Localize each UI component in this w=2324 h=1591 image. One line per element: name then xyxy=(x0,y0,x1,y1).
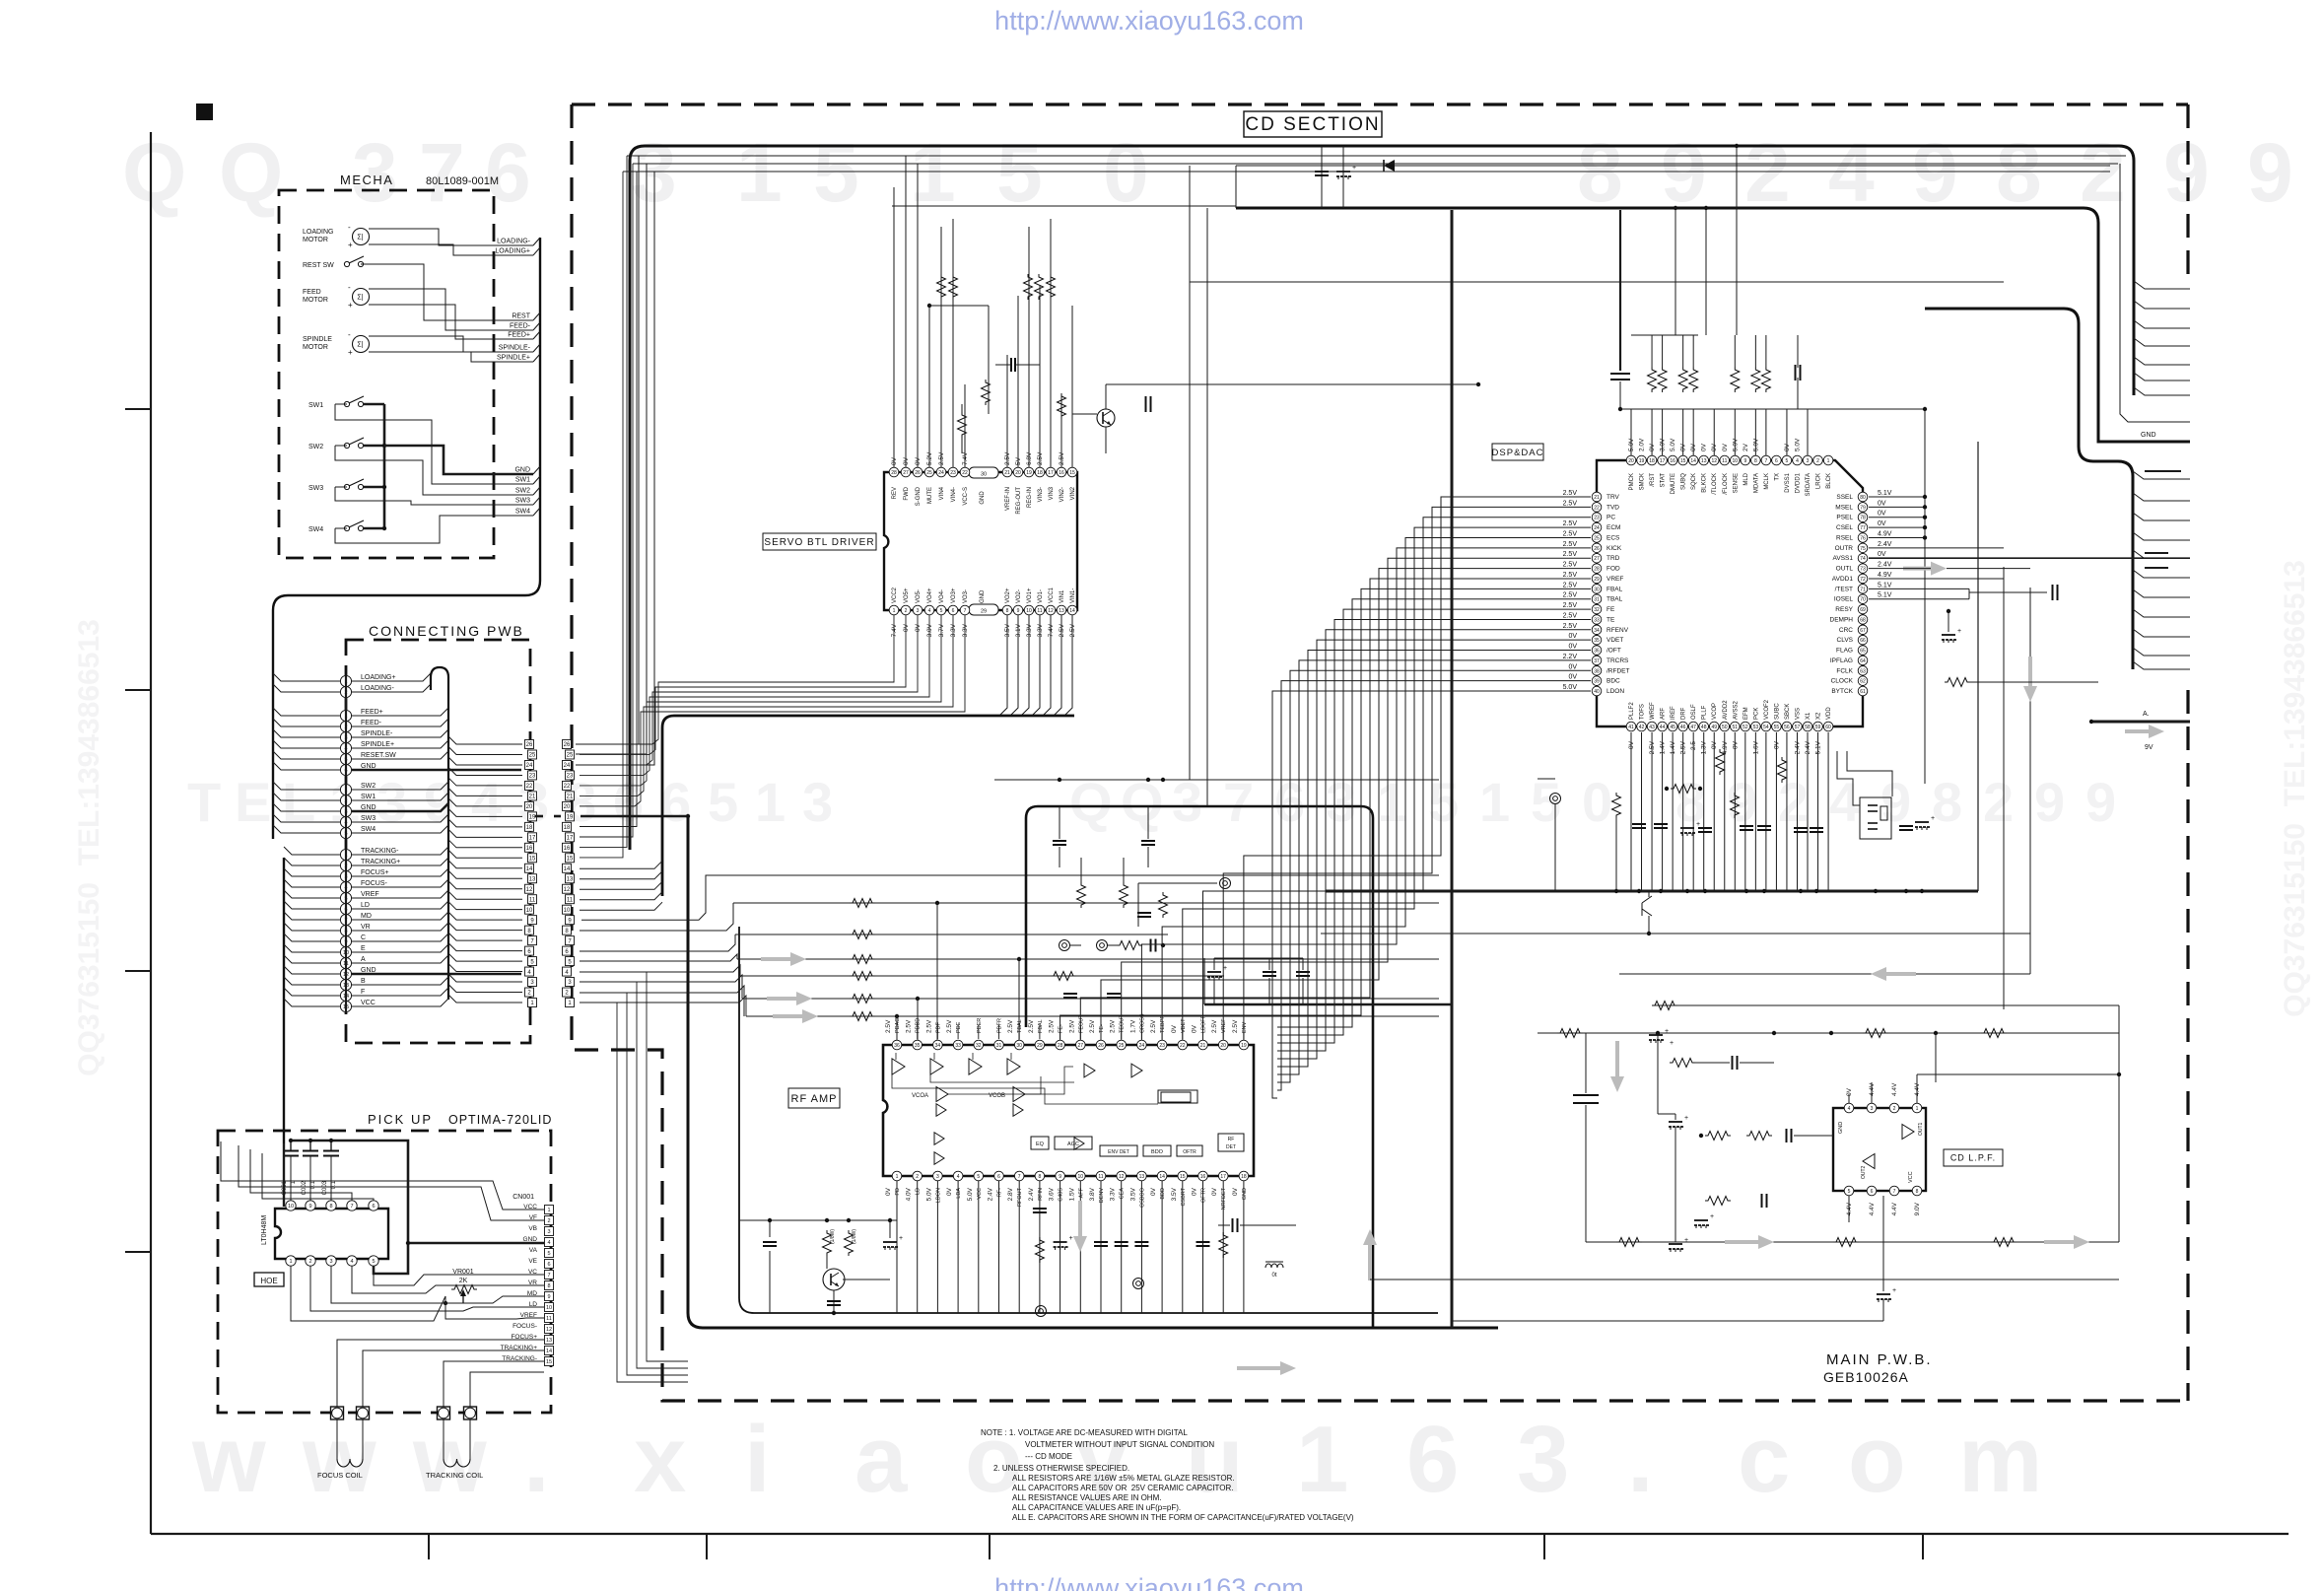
op-amp xyxy=(969,1059,982,1074)
trunk GND right xyxy=(1236,208,2190,442)
resistor xyxy=(1991,1238,2016,1247)
svg-text:10: 10 xyxy=(1078,1174,1084,1180)
CN001 pin 14 xyxy=(545,1347,554,1355)
svg-text:VCOF2: VCOF2 xyxy=(1764,699,1770,720)
dsp pin 77 xyxy=(1858,522,1868,532)
trunk vertical center-right xyxy=(1451,210,1454,1328)
svg-text:-: - xyxy=(348,223,351,232)
coil terminals xyxy=(331,1407,344,1419)
dsp pin 25 xyxy=(1592,533,1602,543)
svg-text:66: 66 xyxy=(1860,638,1866,644)
electrolytic capacitor xyxy=(1942,634,1955,636)
long wire y791 xyxy=(994,779,1439,781)
resistor xyxy=(1612,793,1621,818)
capacitor xyxy=(1794,827,1808,829)
svg-text:0V: 0V xyxy=(946,1187,953,1196)
dsp pin 43 xyxy=(1647,722,1657,731)
svg-text:SPINDLE+: SPINDLE+ xyxy=(361,741,394,748)
svg-text:GND: GND xyxy=(514,467,530,474)
svg-text:31: 31 xyxy=(996,1043,1002,1049)
svg-text:25: 25 xyxy=(1119,1043,1125,1049)
resistor xyxy=(850,955,875,964)
svg-text:25: 25 xyxy=(926,470,932,476)
transistor Q servo xyxy=(1097,409,1115,427)
trunk C stubs xyxy=(2133,471,2190,479)
svg-text:RSEL: RSEL xyxy=(1836,534,1853,541)
svg-text:21: 21 xyxy=(567,795,574,800)
svg-text:0.1: 0.1 xyxy=(310,1180,316,1189)
svg-text:60: 60 xyxy=(1825,725,1831,730)
svg-text:12: 12 xyxy=(526,887,533,893)
CN001 pin 12 xyxy=(545,1325,554,1334)
dsp right bus xyxy=(1924,409,1926,784)
dsp pin 79 xyxy=(1858,503,1868,513)
svg-text:2.4V: 2.4V xyxy=(988,1187,994,1201)
CN001 pin 5 xyxy=(545,1249,554,1258)
rf pin 15 xyxy=(1178,1171,1188,1181)
dsp pin 32 xyxy=(1592,604,1602,614)
svg-text:12: 12 xyxy=(1119,1174,1125,1180)
svg-text:2.5V: 2.5V xyxy=(1563,582,1578,588)
svg-text:21: 21 xyxy=(1200,1043,1206,1049)
wires cn001 focus tracking to coils xyxy=(337,1340,544,1407)
svg-text:20: 20 xyxy=(1628,458,1634,464)
svg-text:REG-OUT: REG-OUT xyxy=(1016,487,1022,515)
svg-text:48: 48 xyxy=(1701,725,1707,730)
resistor xyxy=(1716,749,1725,775)
PICK UP dashed box xyxy=(218,1131,551,1413)
dsp pin 56 xyxy=(1782,722,1792,731)
svg-text:F: F xyxy=(361,989,365,996)
svg-text:49: 49 xyxy=(1711,725,1717,730)
svg-text:TRACKING-: TRACKING- xyxy=(361,848,399,855)
op-amp xyxy=(1013,1104,1023,1117)
svg-text:STAT: STAT xyxy=(1661,473,1667,488)
rf pin 7 xyxy=(1014,1171,1024,1181)
svg-text:13: 13 xyxy=(1139,1174,1145,1180)
svg-text:10: 10 xyxy=(546,1305,552,1311)
svg-text:TOFS: TOFS xyxy=(1640,704,1646,720)
svg-text:+: + xyxy=(348,241,353,249)
svg-text:46: 46 xyxy=(1680,725,1686,730)
svg-text:TRV: TRV xyxy=(1606,494,1620,501)
op-amp xyxy=(1013,1087,1025,1102)
CN001 pin 6 xyxy=(545,1260,554,1269)
resistor xyxy=(850,972,875,981)
svg-text:2.5V: 2.5V xyxy=(1563,490,1578,497)
resistor xyxy=(850,899,875,908)
svg-text:79: 79 xyxy=(1860,505,1866,511)
svg-text:MDATA: MDATA xyxy=(1753,473,1759,493)
capacitor xyxy=(1134,1241,1148,1243)
lpf pin 8 xyxy=(1912,1186,1922,1196)
rf pin 17 xyxy=(1218,1171,1228,1181)
svg-text:21: 21 xyxy=(1594,495,1600,501)
svg-text:o: o xyxy=(1848,1407,1906,1512)
dsp pin 1 xyxy=(1823,455,1833,465)
dsp pin 35 xyxy=(1592,635,1602,645)
svg-text:PDE: PDE xyxy=(956,1021,962,1033)
svg-text:34: 34 xyxy=(935,1043,941,1049)
svg-text:A: A xyxy=(361,956,366,963)
rf pin 8 xyxy=(1035,1171,1045,1181)
resistor xyxy=(1671,785,1696,794)
svg-text:SSEL: SSEL xyxy=(1836,494,1853,501)
dsp pin 5 xyxy=(1782,455,1792,465)
svg-text:+: + xyxy=(1069,1235,1073,1242)
svg-text:2.5V: 2.5V xyxy=(1007,1019,1014,1033)
svg-text:VCOA: VCOA xyxy=(912,1093,928,1099)
dsp pin 21 xyxy=(1592,492,1602,502)
long thin wire y286 xyxy=(1190,281,2004,283)
svg-text:8: 8 xyxy=(1675,771,1706,833)
svg-text:2.5V: 2.5V xyxy=(1068,1019,1075,1033)
svg-text:X2: X2 xyxy=(1816,712,1822,720)
svg-text:1: 1 xyxy=(289,1259,292,1265)
svg-text:SRDATA: SRDATA xyxy=(1806,473,1811,496)
svg-text:0: 0 xyxy=(1103,126,1149,219)
svg-text:LOADING+: LOADING+ xyxy=(495,248,530,255)
svg-text:VB: VB xyxy=(528,1225,537,1232)
capacitor xyxy=(1232,1218,1234,1232)
svg-text:6: 6 xyxy=(1871,1189,1874,1195)
svg-text:2.5V: 2.5V xyxy=(906,1019,913,1033)
svg-text:2.5V: 2.5V xyxy=(1150,1019,1157,1033)
svg-text:0V: 0V xyxy=(1150,1187,1157,1196)
verticals from top lines to boxes 18-15 xyxy=(580,172,623,858)
svg-text:SW4: SW4 xyxy=(361,826,376,833)
wire right mid vertical xyxy=(2120,164,2190,422)
svg-text:26: 26 xyxy=(564,742,571,748)
op-amp xyxy=(936,1104,946,1117)
svg-text:OUT2: OUT2 xyxy=(1861,1165,1867,1179)
dsp pin 33 xyxy=(1592,615,1602,625)
svg-text:E: E xyxy=(361,945,366,952)
svg-text:GND: GND xyxy=(980,589,986,603)
resistor xyxy=(949,274,958,300)
electrolytic capacitor xyxy=(1207,971,1221,973)
svg-text:VIN4-: VIN4- xyxy=(951,487,957,502)
svg-text:FBAL: FBAL xyxy=(1038,1019,1044,1033)
CN001 pin 2 xyxy=(545,1216,554,1225)
servo pin slot 29 xyxy=(969,604,998,615)
svg-text:ECS: ECS xyxy=(1606,534,1620,541)
svg-text:REST: REST xyxy=(512,313,530,320)
svg-text:ENV: ENV xyxy=(1242,1021,1248,1033)
servo mid caps xyxy=(1006,355,1008,467)
svg-text:T: T xyxy=(187,771,221,833)
svg-text:6: 6 xyxy=(547,1262,550,1268)
svg-text:0V: 0V xyxy=(1211,1187,1218,1196)
op-amp xyxy=(936,1087,948,1102)
svg-text:Σ|: Σ| xyxy=(357,295,363,302)
svg-text:29: 29 xyxy=(981,609,987,615)
svg-text:C: C xyxy=(361,934,366,941)
svg-text:LD: LD xyxy=(361,902,370,909)
svg-text:6: 6 xyxy=(485,126,531,219)
diode D at top xyxy=(1384,160,1395,172)
svg-text:18: 18 xyxy=(1649,458,1655,464)
svg-text:MLD: MLD xyxy=(1743,472,1749,485)
svg-text:VIN1: VIN1 xyxy=(1059,589,1065,603)
dsp pin 40 xyxy=(1592,686,1602,696)
mecha switch wires xyxy=(383,404,386,528)
CN001 pin 9 xyxy=(545,1292,554,1301)
svg-text:5: 5 xyxy=(372,1259,375,1265)
svg-text:CD L.P.F.: CD L.P.F. xyxy=(1950,1153,1996,1163)
svg-text:5.1V: 5.1V xyxy=(1878,490,1892,497)
svg-text:VIN3-: VIN3- xyxy=(1038,487,1044,502)
svg-text:TVD: TVD xyxy=(1606,504,1619,511)
svg-text:2.5V: 2.5V xyxy=(1563,541,1578,548)
rf pin 18 xyxy=(1239,1171,1249,1181)
dsp pin 20 xyxy=(1626,455,1636,465)
svg-text:19: 19 xyxy=(529,815,536,821)
svg-text:B: B xyxy=(361,978,366,985)
svg-text:14: 14 xyxy=(546,1349,552,1354)
svg-text:SW4: SW4 xyxy=(308,526,323,533)
svg-text:40: 40 xyxy=(1594,689,1600,695)
svg-text:4: 4 xyxy=(1828,126,1875,219)
svg-text:3.3V: 3.3V xyxy=(1110,1187,1117,1201)
svg-text:9: 9 xyxy=(1912,126,1958,219)
CONNECTING PWB dashed box xyxy=(346,640,530,1043)
svg-text:ECM: ECM xyxy=(1606,524,1620,531)
svg-text:SPINDLE-: SPINDLE- xyxy=(361,730,393,737)
svg-text:2.5V: 2.5V xyxy=(1211,1019,1218,1033)
svg-text:2.2V: 2.2V xyxy=(1563,654,1578,660)
caps cluster right of rf xyxy=(1214,957,1303,959)
dsp pin 29 xyxy=(1592,574,1602,584)
svg-text:8: 8 xyxy=(329,1204,332,1210)
svg-text:70: 70 xyxy=(1860,597,1866,603)
capacitor C002 xyxy=(303,1150,318,1152)
svg-text:9: 9 xyxy=(308,1204,311,1210)
svg-text:OFTR: OFTR xyxy=(1201,1188,1207,1203)
dsp pin 50 xyxy=(1720,722,1730,731)
electrolytic capacitor xyxy=(1915,821,1929,823)
svg-text:-: - xyxy=(348,330,351,339)
svg-text:7: 7 xyxy=(547,1273,550,1279)
svg-text:30: 30 xyxy=(1016,1043,1022,1049)
dsp pin 52 xyxy=(1741,722,1750,731)
svg-text:25: 25 xyxy=(1594,535,1600,541)
lpf pin 7 xyxy=(1889,1186,1899,1196)
rf pin 35 xyxy=(917,1025,919,1039)
svg-text:PDF: PDF xyxy=(935,1021,941,1033)
svg-text:17: 17 xyxy=(1660,458,1666,464)
svg-text:15: 15 xyxy=(546,1359,552,1365)
svg-text:Q: Q xyxy=(122,126,186,219)
svg-text:34: 34 xyxy=(1594,628,1600,634)
resistor xyxy=(823,1230,832,1256)
svg-text:LDON: LDON xyxy=(1606,688,1624,695)
capacitor xyxy=(1094,1241,1108,1243)
svg-text:78: 78 xyxy=(1860,516,1866,521)
svg-text:CN001: CN001 xyxy=(513,1194,534,1201)
svg-text:6: 6 xyxy=(1406,1407,1459,1512)
dsp pin 80 xyxy=(1858,492,1868,502)
svg-text:VCOP: VCOP xyxy=(1712,703,1718,720)
svg-text:19: 19 xyxy=(1639,458,1645,464)
servo pin 10 xyxy=(1024,605,1034,615)
connector column A (connecting pwb) xyxy=(525,740,534,749)
resistor xyxy=(1159,892,1168,918)
svg-text:FBAL: FBAL xyxy=(1606,586,1623,592)
svg-text:+: + xyxy=(1665,1028,1669,1035)
svg-text:1: 1 xyxy=(547,1208,550,1213)
svg-text:+: + xyxy=(348,301,353,310)
svg-text:2V: 2V xyxy=(1743,443,1749,451)
switch SW2 xyxy=(344,443,349,448)
svg-text:QQ376315150 TEL:13943866513: QQ376315150 TEL:13943866513 xyxy=(2279,560,2311,1017)
CN001 pin 1 xyxy=(545,1206,554,1214)
svg-text:MOTOR: MOTOR xyxy=(303,344,328,351)
svg-text:L: L xyxy=(282,771,315,833)
pickup thick gnd bus xyxy=(291,1141,408,1274)
resistor xyxy=(1035,1237,1044,1263)
svg-text:X1: X1 xyxy=(1806,712,1811,720)
lpf pin 2 xyxy=(1889,1103,1899,1113)
electrolytic capacitor xyxy=(1649,1034,1663,1036)
svg-text:VO5+: VO5+ xyxy=(904,588,910,603)
svg-text:2.5V: 2.5V xyxy=(1563,592,1578,599)
svg-text:3: 3 xyxy=(547,1229,550,1235)
dsp pin 6 xyxy=(1772,455,1782,465)
servo pin 3 xyxy=(913,605,923,615)
svg-text:FOD: FOD xyxy=(1606,566,1620,573)
electrolytic capacitor xyxy=(1694,1219,1708,1221)
dsp pin 12 xyxy=(1709,455,1719,465)
svg-text:LDOFF: LDOFF xyxy=(1201,1014,1207,1033)
svg-text:13: 13 xyxy=(1059,608,1064,614)
svg-text:PDFR: PDFR xyxy=(997,1018,1003,1033)
svg-text:FEOUT: FEOUT xyxy=(1078,1014,1084,1033)
svg-text:VIN2-: VIN2- xyxy=(1059,487,1065,502)
dsp pin 18 xyxy=(1647,455,1657,465)
svg-text:1: 1 xyxy=(910,126,956,219)
svg-text:/FLOCK: /FLOCK xyxy=(1723,473,1729,495)
resistor xyxy=(937,274,946,300)
wire right verticals to bottom xyxy=(2003,567,2005,1009)
svg-text:/OFT: /OFT xyxy=(1606,648,1621,655)
servo pin 19 xyxy=(1024,467,1034,477)
svg-text:GND: GND xyxy=(2141,432,2156,439)
svg-text:37: 37 xyxy=(1594,658,1600,664)
svg-text:11: 11 xyxy=(1722,458,1727,464)
electrolytic capacitor xyxy=(883,1241,897,1243)
dsp pin 13 xyxy=(1699,455,1709,465)
pickup left feed bus xyxy=(221,1141,544,1210)
svg-text:(1/8W): (1/8W) xyxy=(830,1229,836,1244)
svg-text:w: w xyxy=(191,1407,266,1512)
svg-text:DSP&DAC: DSP&DAC xyxy=(1492,448,1544,458)
svg-text:1: 1 xyxy=(755,771,786,833)
servo pin 21 xyxy=(1002,467,1012,477)
svg-text:9: 9 xyxy=(547,1294,550,1300)
svg-text:BDO: BDO xyxy=(1151,1149,1164,1155)
svg-text:http://www.xiaoyu163.com: http://www.xiaoyu163.com xyxy=(994,6,1304,35)
svg-text:4: 4 xyxy=(928,608,931,614)
dsp pin 23 xyxy=(1592,513,1602,522)
svg-text:m: m xyxy=(1958,1407,2042,1512)
svg-text:16: 16 xyxy=(526,846,533,852)
svg-text:2: 2 xyxy=(1778,771,1809,833)
svg-text:5: 5 xyxy=(708,771,738,833)
svg-text:FE-: FE- xyxy=(1059,1024,1064,1033)
svg-text:2.5V: 2.5V xyxy=(1232,1019,1239,1033)
dsp pin 44 xyxy=(1658,722,1668,731)
svg-text:4.4V: 4.4V xyxy=(1891,1202,1898,1215)
dsp pin 66 xyxy=(1858,635,1868,645)
lpf bottom bus xyxy=(1586,1241,2119,1243)
svg-text:25: 25 xyxy=(567,753,574,759)
svg-text:19: 19 xyxy=(1241,1043,1247,1049)
svg-text:VO1-: VO1- xyxy=(1038,589,1044,603)
svg-text:CONNECTING PWB: CONNECTING PWB xyxy=(369,623,524,639)
svg-text:63: 63 xyxy=(1860,668,1866,674)
capacitor xyxy=(1810,827,1823,829)
svg-text:+: + xyxy=(1684,1237,1688,1244)
servo pin 8 xyxy=(1002,605,1012,615)
svg-text:12: 12 xyxy=(1711,458,1717,464)
svg-text:27: 27 xyxy=(1594,556,1600,562)
misc long wires xyxy=(580,972,688,1361)
svg-text:VO2+: VO2+ xyxy=(1005,588,1011,603)
pickup pin 8 xyxy=(326,1201,336,1211)
svg-text:ALL CAPACITANCE VALUES ARE IN: ALL CAPACITANCE VALUES ARE IN uF(p=pF). xyxy=(1012,1503,1181,1512)
capacitor xyxy=(1654,823,1668,825)
dsp pin 48 xyxy=(1699,722,1709,731)
svg-text:0V: 0V xyxy=(1568,674,1577,681)
svg-text:FEED-: FEED- xyxy=(510,323,531,330)
svg-text:VCC: VCC xyxy=(977,1188,983,1200)
svg-text:TRACKING COIL: TRACKING COIL xyxy=(426,1471,483,1480)
svg-text:7: 7 xyxy=(1893,1189,1896,1195)
svg-text:OPTIMA-720LID: OPTIMA-720LID xyxy=(448,1113,552,1127)
svg-text:23: 23 xyxy=(529,774,536,780)
svg-text:17: 17 xyxy=(1048,470,1054,476)
svg-text:RFIN: RFIN xyxy=(1038,1188,1044,1201)
svg-text:EQ: EQ xyxy=(1036,1141,1045,1147)
svg-text:PDBD: PDBD xyxy=(916,1018,922,1033)
svg-text:/TEST: /TEST xyxy=(1835,586,1853,592)
rf pin 23 xyxy=(1161,1025,1163,1039)
svg-text:Σ|: Σ| xyxy=(357,342,363,349)
rest switch xyxy=(344,261,349,266)
svg-text:SW1: SW1 xyxy=(515,477,530,484)
svg-text:61: 61 xyxy=(1860,689,1866,695)
svg-text:2.5V: 2.5V xyxy=(1563,530,1578,537)
resistor xyxy=(1616,1238,1642,1247)
rf pin 19 xyxy=(1243,1025,1245,1039)
svg-text:20: 20 xyxy=(564,804,571,810)
test point TPa xyxy=(1059,940,1070,951)
capacitor xyxy=(1899,825,1913,827)
svg-text:RFOUT: RFOUT xyxy=(1017,1187,1023,1207)
svg-text:3: 3 xyxy=(936,1174,939,1180)
svg-text:11: 11 xyxy=(1098,1174,1103,1180)
svg-text:RESET.SW: RESET.SW xyxy=(361,752,396,759)
svg-text:ENV DET: ENV DET xyxy=(1108,1149,1129,1155)
svg-text:LDA: LDA xyxy=(956,1188,962,1199)
svg-text:29: 29 xyxy=(1594,577,1600,583)
dsp pin 36 xyxy=(1592,646,1602,656)
loading motor xyxy=(353,229,370,245)
dsp pin 63 xyxy=(1858,665,1868,675)
svg-text:2.5V: 2.5V xyxy=(1563,602,1578,609)
svg-text:21: 21 xyxy=(1004,470,1010,476)
